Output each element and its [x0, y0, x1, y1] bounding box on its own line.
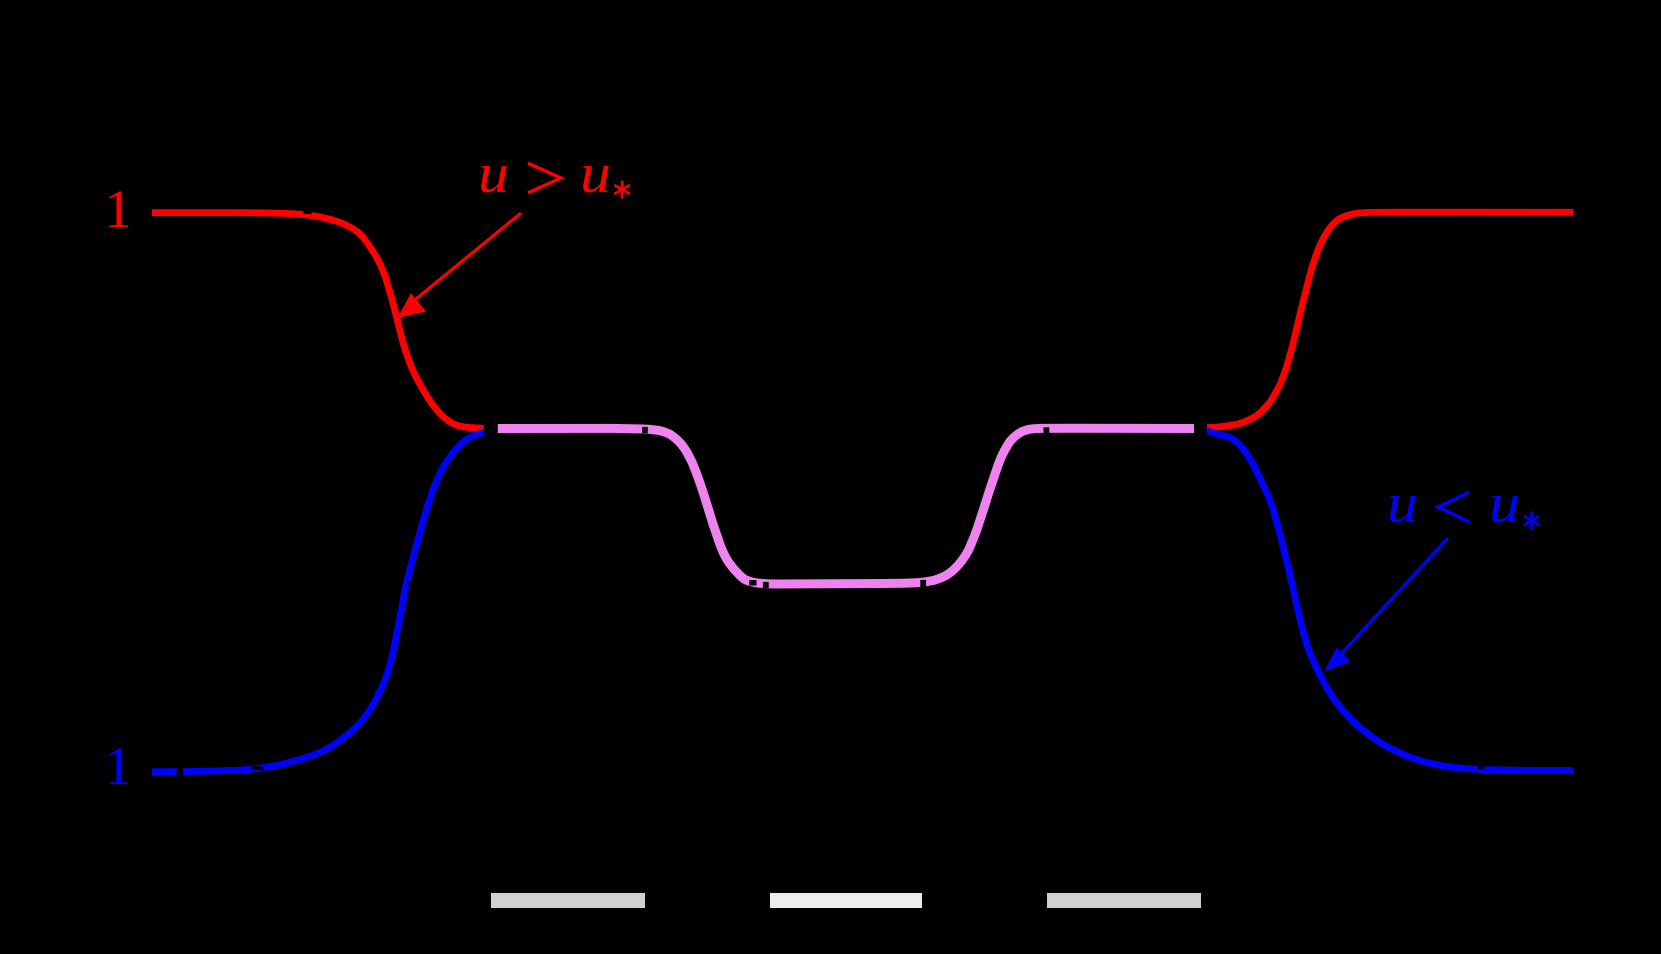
black dashed-curve overlap ticks: [177, 212, 1485, 772]
red outer branch right (u > u*): [1207, 212, 1573, 427]
blue outer branch right (u < u*): [1207, 431, 1573, 771]
svg-text:u: u: [478, 143, 509, 205]
svg-text:u: u: [1387, 473, 1418, 535]
red outer branch left (u > u*): [152, 213, 485, 429]
blue annotation text: u < u_*: [1387, 473, 1520, 535]
svg-text:1: 1: [105, 736, 132, 796]
red annotation arrow head: [398, 293, 427, 318]
red subscript asterisk: [614, 181, 630, 199]
svg-text:u: u: [580, 143, 611, 205]
tick on blue left slope: [409, 582, 411, 586]
violet interpolating solution curve: [497, 428, 1194, 584]
left junction dash: [484, 424, 498, 433]
grey bar middle: [770, 893, 922, 908]
red annotation text: u > u_*: [478, 143, 611, 205]
blue outer branch left (u < u*): [152, 432, 485, 772]
ticks on violet dip bottom left: [750, 581, 756, 585]
tick on red left flat: [304, 212, 312, 213]
blue subscript asterisk: [1524, 512, 1540, 530]
grey bar left: [491, 893, 645, 908]
tick on violet right flat: [1044, 428, 1049, 434]
red greater-than sign: [528, 163, 561, 193]
grey bar right: [1047, 893, 1201, 908]
red annotation arrow shaft: [416, 213, 521, 299]
right junction dash: [1195, 424, 1207, 433]
blue less-than sign: [1438, 492, 1469, 522]
svg-text:1: 1: [105, 179, 132, 239]
tick on blue right flat: [1478, 765, 1484, 770]
tick on violet dip bottom right: [921, 580, 926, 587]
tick on violet left flat: [643, 427, 648, 432]
blue annotation arrow shaft: [1340, 538, 1448, 655]
ticks on blue left flat: [177, 768, 184, 775]
svg-text:u: u: [1489, 473, 1520, 535]
blue annotation arrow head: [1324, 648, 1351, 672]
